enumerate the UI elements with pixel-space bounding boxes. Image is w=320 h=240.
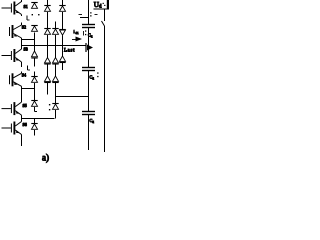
- wire string D bottom: [62, 63, 64, 70]
- current arrow i: [76, 37, 83, 42]
- transistor Q5 gate bar: [10, 104, 12, 113]
- dots near bus: [85, 30, 86, 31]
- black edge block top right: [107, 0, 109, 9]
- wire string C: [55, 65, 57, 77]
- svg-text:S1: S1: [24, 4, 28, 9]
- wire bottom diode lower stub: [34, 130, 36, 136]
- wire chain S5 emitter to junction: [21, 115, 23, 118]
- wire string B: [47, 35, 49, 58]
- diode DA2: [31, 25, 37, 27]
- transistor Q1 collector: [15, 2, 21, 7]
- diode DA3: [32, 51, 38, 57]
- wire DC bus segment 4: [88, 115, 90, 151]
- diode DC1: [52, 28, 58, 30]
- wire tap rail 1 stub: [80, 17, 89, 19]
- transistor Q4 gate bar: [9, 75, 11, 84]
- wire DC bus segment 3: [88, 71, 90, 112]
- arrow mark on voltage line: [102, 21, 105, 26]
- diode DC3: [53, 76, 59, 81]
- wire string C to tap rail 2: [55, 83, 57, 104]
- transistor Q2 body bar: [12, 25, 14, 38]
- wire tap rail 2: [56, 96, 89, 98]
- wire string D: [62, 12, 64, 30]
- transistor Q2 gate bar: [9, 27, 11, 36]
- wire chain below S6: [21, 135, 23, 147]
- transistor Q3 body bar: [13, 49, 15, 62]
- current arrow i tail: [72, 39, 76, 41]
- transistor Q6 collector: [15, 122, 21, 127]
- svg-text:Last: Last: [64, 49, 75, 54]
- wire string B: [47, 12, 49, 29]
- wire string B: [47, 65, 49, 77]
- diode DC4: [52, 103, 58, 105]
- wire DC bus segment 1: [88, 0, 90, 24]
- wire string A hook below DA5: [34, 107, 36, 112]
- transistor Q4 emitter with arrow: [13, 82, 21, 87]
- wire DC bus segment 2: [88, 28, 90, 68]
- transistor Q3 emitter with arrow: [15, 58, 21, 63]
- transistor Q6 emitter with arrow: [15, 130, 21, 135]
- wire string A: [34, 83, 36, 101]
- wire chain S1-S2 lower stub: [21, 23, 23, 26]
- transistor Q4 body bar: [12, 73, 14, 86]
- diode DD3: [60, 56, 66, 61]
- transistor Q6 body bar: [13, 122, 15, 135]
- svg-text:Cd: Cd: [90, 75, 95, 81]
- diode DA6: [31, 123, 37, 125]
- diode DA1: [31, 2, 37, 4]
- wire string A segment: [34, 72, 36, 77]
- svg-text:S2: S2: [22, 25, 26, 30]
- transistor Q1 body bar: [13, 2, 15, 15]
- svg-text:Cd: Cd: [90, 118, 95, 124]
- wire chain S3-S4 stub: [21, 62, 23, 67]
- diode DB4: [45, 76, 51, 81]
- wire string C: [55, 35, 57, 58]
- top right rail: [94, 8, 110, 10]
- transistor Q5 gate lead: [2, 108, 11, 110]
- polarity dash left of bus: [79, 14, 83, 16]
- diode DA4: [31, 76, 37, 78]
- transistor Q6 gate bar: [10, 124, 12, 133]
- output arrow bar: [85, 43, 87, 52]
- wire string A: [34, 58, 36, 66]
- svg-text:Ud: Ud: [94, 1, 102, 10]
- label dots top right: [103, 3, 104, 4]
- wire junction line S5-S6: [22, 118, 55, 120]
- transistor Q2 collector: [13, 25, 21, 30]
- transistor Q1 gate lead: [2, 7, 11, 9]
- marks below Ud label: [90, 12, 91, 13]
- transistor Q5 collector: [15, 102, 21, 107]
- transistor Q1 gate bar: [10, 4, 12, 13]
- diode DB3: [45, 58, 51, 63]
- diode DA5: [31, 100, 37, 102]
- svg-text:S6: S6: [23, 122, 27, 127]
- transistor Q3 gate lead: [2, 55, 11, 57]
- svg-text:S3: S3: [24, 47, 28, 52]
- diode DD1: [59, 5, 65, 7]
- wire string B top: [47, 0, 49, 6]
- diode DB1: [44, 5, 50, 7]
- voltage line right lower: [104, 26, 106, 152]
- output arrowhead: [87, 45, 93, 51]
- transistor Q2 emitter with arrow: [13, 34, 21, 39]
- wire string C bottom stub: [55, 110, 57, 119]
- capacitor C1: [82, 24, 95, 26]
- ellipsis tick chain S1-S2: [26, 16, 28, 21]
- wire string C stub: [55, 22, 57, 29]
- wire chain S2-S3: [21, 38, 23, 49]
- wire bottom diode top stub: [34, 119, 36, 124]
- transistor Q5 emitter with arrow: [15, 111, 21, 116]
- svg-text:id1: id1: [74, 29, 79, 35]
- wire string B bottom: [47, 83, 49, 95]
- wire link junction S4-S5 to string A: [22, 88, 35, 90]
- wire chain S6 collector stub: [21, 119, 23, 122]
- svg-text:S5: S5: [23, 103, 27, 108]
- ellipsis dots string A: [32, 14, 33, 15]
- diode DC2: [53, 58, 59, 63]
- ellipsis dot near string D: [67, 50, 68, 51]
- wire chain S4 collector stub: [21, 72, 23, 74]
- wire chain S4-S5: [21, 86, 23, 102]
- transistor Q1 emitter with arrow: [15, 10, 21, 15]
- wire output rail: [21, 45, 87, 47]
- transistor Q4 collector: [13, 73, 21, 78]
- wire link junction S2-S3 to string A: [22, 39, 35, 41]
- transistor Q5 body bar: [13, 102, 15, 115]
- wire chain S1-S2 upper stub: [21, 15, 23, 17]
- ellipsis dots below string B: [49, 104, 50, 105]
- transistor Q3 gate bar: [10, 51, 12, 60]
- diode DD2: [59, 29, 65, 31]
- ellipsis tick chain S3-S4: [27, 66, 29, 71]
- capacitor C3: [82, 111, 95, 113]
- wire string A through link and rail: [34, 33, 36, 52]
- svg-text:S4: S4: [22, 73, 26, 78]
- voltage line right upper: [104, 9, 106, 21]
- transistor Q6 gate lead: [2, 127, 11, 129]
- diode DB2: [44, 28, 50, 30]
- svg-text:a): a): [42, 153, 49, 163]
- chain top wire: [21, 0, 23, 2]
- capacitor C2: [82, 67, 95, 69]
- wire string D top: [62, 0, 64, 6]
- wire string D: [62, 36, 64, 57]
- transistor Q3 collector: [15, 49, 21, 54]
